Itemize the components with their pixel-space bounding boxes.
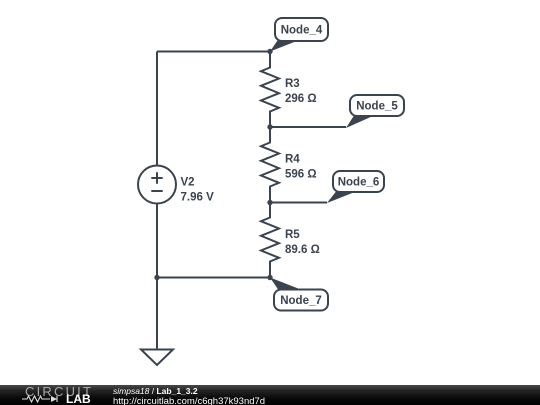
label R3 value <box>285 78 317 105</box>
svg-text:296 Ω: 296 Ω <box>285 93 317 105</box>
svg-text:Node_5: Node_5 <box>356 101 398 113</box>
node Node_6 flag <box>327 171 384 203</box>
logo LAB text <box>66 392 91 405</box>
resistor R4 <box>261 127 279 203</box>
node junction R4-R5 <box>267 200 272 205</box>
svg-text:7.96 V: 7.96 V <box>181 192 215 204</box>
svg-text:V2: V2 <box>181 177 195 189</box>
svg-text:596 Ω: 596 Ω <box>285 169 317 181</box>
credit text <box>113 386 265 405</box>
node Node_4 flag <box>270 18 328 52</box>
node junction R3-R4 <box>267 124 272 129</box>
wire node6 horizontal <box>270 202 327 204</box>
wire node5 horizontal <box>270 126 346 128</box>
voltage source V2 <box>138 166 176 204</box>
label R5 value <box>285 229 320 256</box>
node junction bottom right <box>267 275 272 280</box>
svg-text:R5: R5 <box>285 229 300 241</box>
logo diode <box>51 396 57 402</box>
svg-text:Node_4: Node_4 <box>281 25 323 37</box>
label R4 value <box>285 154 317 181</box>
footer bar <box>0 385 540 405</box>
svg-text:Node_7: Node_7 <box>280 295 322 307</box>
svg-text:R4: R4 <box>285 154 300 166</box>
svg-text:R3: R3 <box>285 78 300 90</box>
node junction top <box>267 49 272 54</box>
node Node_5 flag <box>346 95 404 128</box>
node junction bottom left <box>154 275 159 280</box>
wire left vertical lower <box>156 204 158 350</box>
node Node_7 flag <box>270 278 328 311</box>
resistor R3 <box>261 52 279 128</box>
wire left vertical upper <box>156 52 158 166</box>
label V2 value <box>181 177 215 204</box>
logo CIRCUIT text <box>25 384 93 399</box>
logo circuit line <box>22 396 57 402</box>
wire bottom horizontal <box>157 277 270 279</box>
svg-text:Node_6: Node_6 <box>338 177 380 189</box>
wire top horizontal <box>157 51 270 53</box>
svg-text:LAB: LAB <box>66 392 91 405</box>
svg-text:89.6 Ω: 89.6 Ω <box>285 244 320 256</box>
ground <box>141 350 173 366</box>
resistor R5 <box>261 203 279 278</box>
